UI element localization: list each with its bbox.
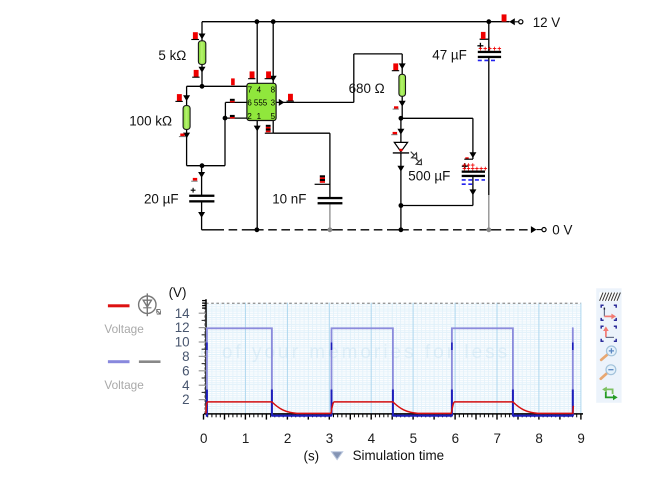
- svg-text:8: 8: [271, 85, 276, 94]
- svg-text:5: 5: [271, 112, 276, 121]
- wire: pin 1 to ground: [256, 120, 258, 230]
- svg-text:4: 4: [182, 378, 190, 393]
- resistor R2 100 kOhm: [183, 106, 190, 130]
- toolbar fit-x icon: [601, 305, 616, 320]
- svg-text:10: 10: [175, 335, 190, 350]
- svg-text:5 kΩ: 5 kΩ: [158, 48, 186, 63]
- capacitor C3 47 uF: [477, 39, 501, 60]
- wire: 10nF bottom to ground: [329, 204, 331, 230]
- svg-text:Voltage: Voltage: [104, 322, 144, 336]
- svg-text:3: 3: [326, 431, 333, 446]
- svg-text:2: 2: [182, 392, 189, 407]
- wire: +12V top rail: [202, 21, 510, 23]
- toolbar zoom-out icon: [601, 365, 616, 379]
- svg-text:12: 12: [175, 320, 190, 335]
- svg-text:e of your memories for less: e of your memories for less: [200, 342, 510, 363]
- wire: node to LED: [400, 118, 402, 142]
- svg-text:8: 8: [535, 431, 542, 446]
- U1 pin labels row 7 4 8: [248, 85, 276, 94]
- junction dots: [255, 19, 260, 24]
- svg-text:6: 6: [247, 99, 252, 108]
- U1 pin labels row 2 1 5: [247, 112, 275, 121]
- pin5 mark: [266, 125, 271, 127]
- blue trace (square wave): [207, 328, 574, 415]
- wire: node down to 20uF and ground rail: [201, 166, 203, 195]
- svg-text:14: 14: [175, 306, 190, 321]
- y axis labels: [175, 306, 190, 407]
- svg-text:7: 7: [248, 85, 253, 94]
- svg-text:Simulation time: Simulation time: [353, 448, 445, 463]
- svg-text:Voltage: Voltage: [104, 378, 144, 392]
- scope grid: [206, 303, 581, 414]
- 0V terminal: [537, 229, 542, 231]
- svg-text:10 nF: 10 nF: [272, 191, 306, 206]
- toolbar fit-y icon: [601, 326, 616, 341]
- svg-text:1: 1: [257, 112, 262, 121]
- svg-text:0 V: 0 V: [552, 223, 572, 238]
- grey trace (top, dashed): [206, 302, 581, 304]
- resistor R1 5 kOhm: [198, 41, 205, 65]
- svg-text:6: 6: [182, 363, 189, 378]
- wire: LED node to ground rail: [400, 206, 402, 230]
- wire: node to 500uF top: [401, 117, 473, 119]
- svg-text:47 µF: 47 µF: [432, 48, 467, 63]
- wire: pin 6: [225, 101, 247, 103]
- legend grey trace swatch: [139, 360, 161, 363]
- toolbar hatch icon: [599, 292, 620, 301]
- svg-text:0: 0: [200, 431, 207, 446]
- wire: 100k bottom to node: [186, 129, 188, 166]
- svg-text:7: 7: [493, 431, 500, 446]
- svg-text:5: 5: [410, 431, 417, 446]
- grey trace rising edge: [204, 303, 206, 414]
- svg-text:(s): (s): [304, 448, 320, 463]
- legend voltmeter icon: [139, 293, 161, 316]
- pin6 mark: [230, 99, 235, 101]
- pin3 output arrow: [279, 99, 285, 106]
- pin2 mark: [230, 115, 235, 117]
- LED D1: [393, 142, 422, 164]
- watermark breaks over ground rail: [224, 229, 229, 232]
- y axis: [205, 299, 207, 414]
- current direction arrows: [199, 34, 206, 40]
- U1 pin labels row 6 555 3: [247, 99, 275, 108]
- svg-text:20 µF: 20 µF: [144, 191, 179, 206]
- blue trace dark segments: [206, 343, 573, 417]
- wire: 47uF bottom down: [488, 58, 490, 195]
- wire: pin 2: [225, 117, 248, 119]
- wire: node to 100k top: [187, 85, 203, 87]
- svg-text:4: 4: [368, 431, 376, 446]
- svg-text:100 kΩ: 100 kΩ: [129, 113, 172, 128]
- svg-text:2: 2: [284, 431, 291, 446]
- current marks (red): [175, 14, 506, 136]
- op-amp/timer U1 555 chip body: [247, 83, 276, 120]
- red trace: [206, 402, 574, 414]
- wire: pin 4 to rail: [256, 22, 258, 84]
- svg-text:500 µF: 500 µF: [408, 169, 450, 184]
- capacitor C2 10 nF: [318, 197, 343, 205]
- dropdown triangle: [332, 452, 343, 460]
- wire: node R1 bottom to pin 7: [202, 85, 248, 87]
- toolbar background: [596, 288, 621, 403]
- svg-text:4: 4: [257, 85, 262, 94]
- svg-text:1: 1: [242, 431, 249, 446]
- svg-text:9: 9: [577, 431, 584, 446]
- y axis ticks: [199, 301, 206, 400]
- svg-text:680 Ω: 680 Ω: [349, 81, 385, 96]
- wire: pins 2+6 tie vertical: [224, 118, 226, 166]
- toolbar zoom-in icon: [601, 346, 616, 360]
- wire: 500uF bottom return: [472, 177, 474, 206]
- C3 current mark: [481, 32, 486, 39]
- 12V terminal: [515, 21, 519, 23]
- wire: ground bottom rail: [202, 229, 532, 231]
- capacitor C1 20 uF: [189, 178, 214, 203]
- scope plot background: [206, 303, 581, 414]
- wire: 680 bottom to node: [401, 96, 403, 118]
- toolbar swap-axes icon: [602, 387, 618, 401]
- resistor R3 680 Ohm: [399, 74, 406, 96]
- x axis: [204, 413, 583, 415]
- wire: 12V rail down / 47uF branch: [488, 22, 490, 51]
- svg-text:555: 555: [254, 99, 268, 108]
- x axis ticks: [204, 414, 581, 420]
- legend blue trace swatch: [108, 360, 130, 363]
- C2 charge indicator: [320, 175, 325, 177]
- svg-text:6: 6: [452, 431, 459, 446]
- wire: pin 8 to rail: [272, 22, 274, 84]
- wire: 5k branch vertical: [201, 22, 203, 87]
- wire: LED bottom to node: [400, 153, 402, 206]
- 12V terminal arrow: [509, 18, 515, 25]
- svg-text:12 V: 12 V: [533, 15, 561, 30]
- svg-text:8: 8: [182, 349, 189, 364]
- 0V terminal arrow: [531, 226, 537, 233]
- wire: pin 5 to 10nF: [272, 120, 274, 133]
- wire: pin 3 output loop to 680: [276, 101, 354, 103]
- svg-text:(V): (V): [169, 285, 187, 300]
- svg-text:2: 2: [247, 112, 252, 121]
- capacitor C4 500 uF: [462, 157, 488, 184]
- x axis labels: [200, 431, 585, 446]
- legend red trace swatch: [108, 304, 130, 307]
- svg-text:3: 3: [271, 99, 276, 108]
